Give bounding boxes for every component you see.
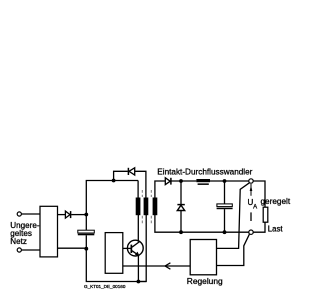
transformer core dashed lines [142, 190, 151, 225]
wire D3 to freewheel node [172, 180, 197, 182]
capacitor C1 (electrolytic: hollow + plate, solid - plate) [78, 230, 95, 235]
node: cap bottom junction [84, 247, 88, 251]
wire cap C2 top lead [224, 181, 226, 204]
rectifier box [40, 206, 58, 257]
wire winding2 bottom lead down [138, 215, 146, 282]
wire left rail up [86, 181, 138, 215]
wire bottom rail [86, 249, 146, 282]
wire feedback sense bottom (to Regelung) [217, 234, 250, 265]
terminal output bottom [249, 230, 253, 234]
wire secondary top lead [155, 181, 165, 198]
Regelung box [190, 240, 216, 275]
node: emitter junction [137, 280, 141, 284]
transformer winding 3 (secondary) [153, 198, 158, 216]
wire winding1 bottom to collector [137, 215, 139, 242]
transformer winding 1 (primary) [136, 198, 141, 216]
wire emitter down [137, 256, 139, 282]
svg-text:Regelung: Regelung [187, 276, 223, 286]
svg-text:Eintakt-Durchflusswandler: Eintakt-Durchflusswandler [157, 168, 252, 177]
wire secondary bottom lead / output bottom rail [155, 215, 249, 232]
wire node down to capacitor C1 [85, 215, 87, 231]
diode D1 [65, 211, 70, 218]
wire base lead [123, 247, 131, 249]
node: output cap top [223, 179, 227, 183]
diode D2 (demagnetization, pointing left) [128, 168, 134, 175]
wire C1 to bottom node [85, 235, 87, 248]
wire freewheel down [180, 181, 182, 204]
svg-text:Netz: Netz [10, 237, 27, 246]
svg-text:geregelt: geregelt [261, 197, 291, 206]
wire control with arrow [123, 265, 190, 267]
transistor Q1 [127, 240, 143, 256]
wire input top [22, 213, 41, 215]
wire winding1 top lead [137, 181, 139, 198]
diode D3 (secondary rectifier) [165, 178, 171, 185]
node: demag tap [112, 179, 116, 183]
node: cap top junction [84, 213, 88, 217]
node: freewheel top [179, 179, 183, 183]
svg-text:Last: Last [268, 224, 284, 233]
terminal input bottom [17, 248, 21, 252]
wire demag loop up [114, 171, 128, 180]
transformer winding 2 (demagnetization) [144, 198, 149, 216]
wire L1 to cap node [210, 180, 249, 182]
wire load bottom [253, 222, 265, 232]
wire D2 to winding 2 top [135, 171, 146, 197]
wire D1 to node [71, 214, 86, 216]
svg-text:A: A [253, 205, 257, 211]
wire rectifier bottom to node [58, 247, 87, 249]
label Ungeregeltes Netz [10, 221, 40, 246]
wire input bottom [22, 249, 41, 251]
arrowhead on control wire [165, 263, 170, 269]
wire freewheel bottom [180, 210, 182, 232]
label U_A [248, 198, 258, 210]
resistor load [263, 207, 268, 222]
svg-text:G_KT01_DE_00160: G_KT01_DE_00160 [84, 284, 126, 289]
voltage arrow U_A [250, 184, 253, 221]
driver block [105, 233, 123, 274]
wire feedback sense top (to Regelung) [217, 183, 250, 249]
node: output cap bottom [223, 230, 227, 234]
terminal output top [249, 179, 253, 183]
wire cap C2 bottom lead [224, 209, 226, 232]
terminal input top [17, 212, 21, 216]
wire rectifier to diode D1 [58, 214, 66, 216]
capacitor C2 (electrolytic) [217, 204, 233, 209]
inductor L1 [196, 179, 210, 185]
diode D4 (freewheeling, pointing up) [177, 205, 185, 211]
node: freewheel bottom [179, 230, 183, 234]
wire to load top [253, 181, 265, 207]
